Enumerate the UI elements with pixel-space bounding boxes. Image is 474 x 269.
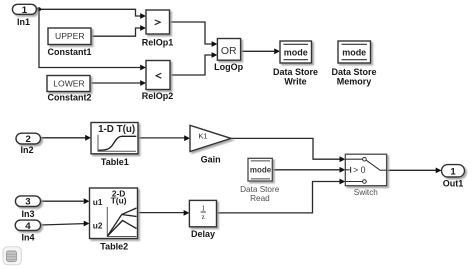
svg-text:u2: u2 (93, 220, 103, 230)
svg-text:3: 3 (25, 197, 30, 208)
svg-text:> 0: > 0 (353, 165, 366, 175)
svg-text:OR: OR (221, 45, 237, 57)
svg-text:RelOp1: RelOp1 (142, 38, 174, 48)
svg-text:4: 4 (25, 221, 31, 232)
svg-text:mode: mode (284, 47, 308, 57)
svg-text:Constant2: Constant2 (47, 93, 91, 103)
svg-text:Memory: Memory (337, 76, 372, 86)
svg-text:LogOp: LogOp (214, 62, 243, 72)
svg-text:In2: In2 (20, 145, 33, 155)
svg-text:UPPER: UPPER (55, 31, 85, 41)
svg-text:T(u): T(u) (111, 196, 127, 206)
svg-text:Constant1: Constant1 (47, 47, 91, 57)
svg-text:Delay: Delay (191, 229, 215, 239)
svg-text:LOWER: LOWER (53, 78, 85, 88)
svg-text:Table2: Table2 (100, 241, 128, 251)
svg-text:1: 1 (22, 5, 28, 16)
svg-text:In4: In4 (21, 233, 34, 243)
svg-text:mode: mode (342, 47, 366, 57)
svg-text:Table1: Table1 (101, 157, 129, 167)
svg-text:2: 2 (26, 134, 31, 145)
svg-text:In1: In1 (17, 17, 30, 27)
svg-text:Data Store: Data Store (240, 185, 280, 194)
svg-text:1: 1 (201, 204, 205, 212)
svg-text:1-D T(u): 1-D T(u) (98, 124, 135, 135)
svg-text:z: z (202, 213, 205, 221)
svg-text:Switch: Switch (354, 188, 379, 197)
svg-text:K1: K1 (198, 132, 207, 141)
svg-text:mode: mode (250, 166, 272, 175)
svg-text:In3: In3 (21, 209, 34, 219)
svg-text:Write: Write (284, 76, 306, 86)
svg-text:Read: Read (250, 194, 270, 203)
svg-text:Out1: Out1 (443, 178, 464, 188)
svg-text:u1: u1 (93, 197, 103, 207)
svg-text:1: 1 (450, 166, 456, 177)
svg-text:RelOp2: RelOp2 (142, 91, 174, 101)
svg-text:Gain: Gain (201, 155, 221, 165)
